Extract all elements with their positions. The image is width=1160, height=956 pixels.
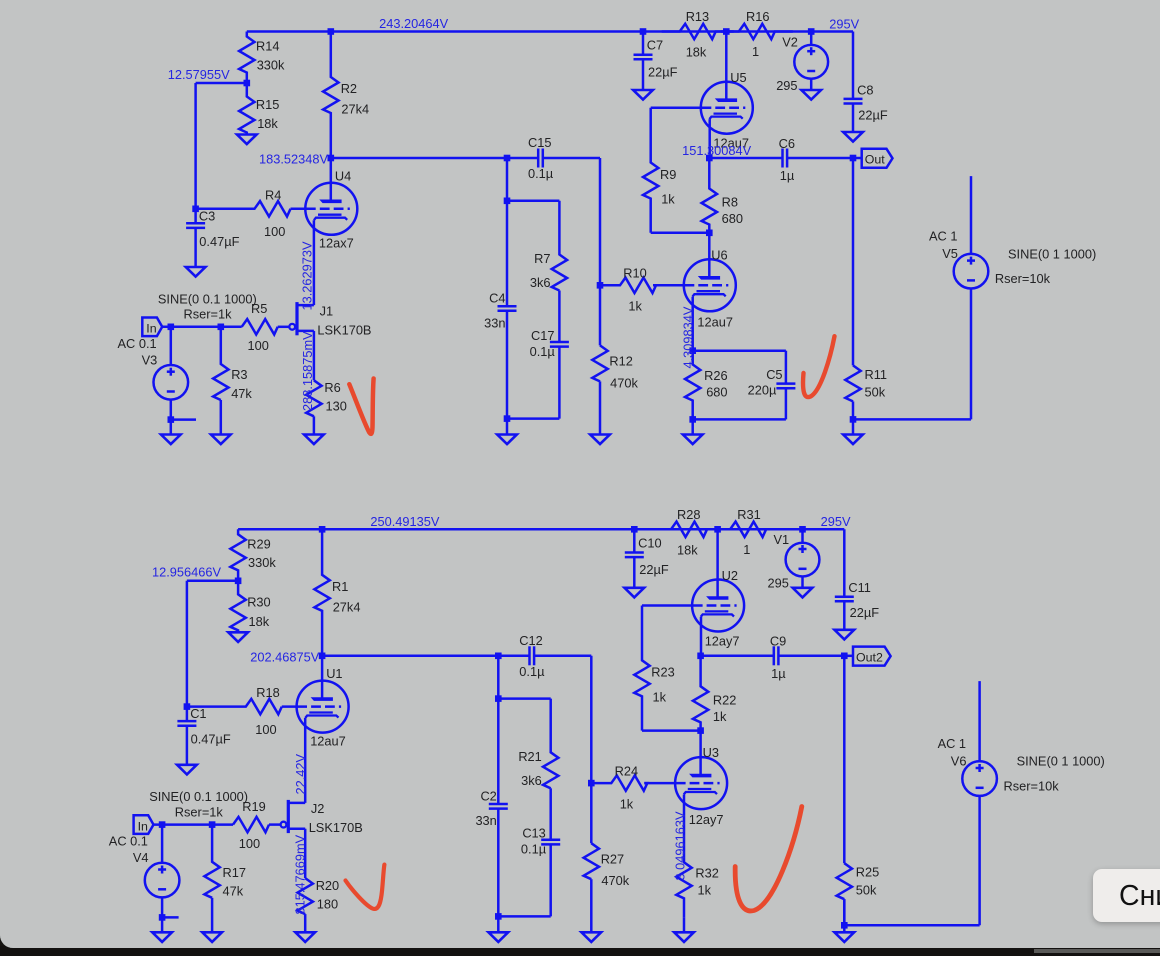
svg-text:R4: R4	[265, 187, 281, 202]
svg-text:680: 680	[722, 211, 743, 226]
svg-text:295: 295	[768, 576, 789, 591]
svg-text:AC 1: AC 1	[938, 736, 966, 751]
svg-text:V1: V1	[774, 532, 790, 547]
svg-text:18k: 18k	[257, 116, 278, 131]
svg-text:SINE(0 0.1 1000): SINE(0 0.1 1000)	[158, 291, 257, 306]
svg-text:V5: V5	[942, 246, 958, 261]
svg-text:12ax7: 12ax7	[319, 236, 354, 251]
svg-text:18k: 18k	[686, 45, 707, 60]
svg-text:AC 1: AC 1	[929, 229, 957, 244]
svg-text:1k: 1k	[661, 192, 675, 207]
svg-text:330k: 330k	[257, 57, 285, 72]
svg-text:R7: R7	[534, 251, 550, 266]
svg-text:100: 100	[255, 722, 276, 737]
svg-text:288.15875mV: 288.15875mV	[300, 331, 315, 411]
svg-text:R21: R21	[518, 749, 541, 764]
svg-text:1: 1	[752, 44, 759, 59]
svg-text:R23: R23	[651, 665, 674, 680]
svg-text:R19: R19	[242, 799, 265, 814]
svg-text:SINE(0 1 1000): SINE(0 1 1000)	[1017, 754, 1105, 769]
svg-text:J2: J2	[311, 801, 325, 816]
svg-text:R26: R26	[704, 368, 727, 383]
svg-text:22µF: 22µF	[858, 107, 888, 122]
svg-text:R18: R18	[256, 685, 279, 700]
svg-text:0.47µF: 0.47µF	[191, 732, 231, 747]
svg-text:R8: R8	[722, 195, 738, 210]
svg-text:4.309834V: 4.309834V	[681, 306, 696, 368]
svg-text:Rser=1k: Rser=1k	[175, 804, 224, 819]
svg-text:C13: C13	[522, 826, 545, 841]
svg-text:1k: 1k	[713, 709, 727, 724]
svg-text:SINE(0 1 1000): SINE(0 1 1000)	[1008, 246, 1096, 261]
svg-text:R12: R12	[609, 354, 632, 369]
svg-text:180: 180	[317, 896, 338, 911]
svg-text:22µF: 22µF	[648, 64, 678, 79]
svg-text:R11: R11	[865, 367, 888, 382]
svg-text:SINE(0 0.1 1000): SINE(0 0.1 1000)	[149, 789, 248, 804]
svg-text:27k4: 27k4	[341, 102, 369, 117]
svg-text:AC 0.1: AC 0.1	[118, 336, 157, 351]
svg-text:C3: C3	[199, 208, 215, 223]
svg-text:22µF: 22µF	[639, 562, 669, 577]
svg-text:R13: R13	[686, 9, 709, 24]
svg-text:0.1µ: 0.1µ	[528, 166, 554, 181]
svg-text:1: 1	[743, 542, 750, 557]
svg-text:1k: 1k	[628, 299, 642, 314]
svg-text:R3: R3	[231, 367, 247, 382]
svg-text:C8: C8	[857, 82, 873, 97]
svg-text:33n: 33n	[475, 813, 496, 828]
svg-text:R29: R29	[247, 536, 270, 551]
svg-text:R10: R10	[623, 266, 646, 281]
svg-text:C7: C7	[647, 38, 663, 53]
svg-text:151.30084V: 151.30084V	[682, 143, 751, 158]
svg-text:13.262973V: 13.262973V	[300, 241, 315, 310]
svg-text:Out: Out	[865, 153, 886, 167]
svg-text:3.0496163V: 3.0496163V	[672, 811, 687, 880]
svg-text:22µF: 22µF	[850, 605, 880, 620]
svg-text:R16: R16	[746, 9, 769, 24]
svg-text:183.52348V: 183.52348V	[259, 152, 328, 167]
svg-text:12.57955V: 12.57955V	[168, 67, 230, 82]
svg-text:C17: C17	[531, 328, 554, 343]
svg-text:R24: R24	[615, 763, 638, 778]
svg-text:12ay7: 12ay7	[705, 634, 740, 649]
svg-text:1k: 1k	[698, 882, 712, 897]
svg-text:R25: R25	[856, 865, 879, 880]
svg-text:U6: U6	[711, 247, 727, 262]
svg-text:Rser=1k: Rser=1k	[184, 307, 233, 322]
svg-text:R2: R2	[341, 81, 357, 96]
svg-text:V4: V4	[133, 850, 149, 865]
svg-text:C15: C15	[528, 135, 551, 150]
svg-text:R28: R28	[677, 507, 700, 522]
svg-text:C5: C5	[766, 367, 782, 382]
svg-text:Rser=10k: Rser=10k	[995, 271, 1051, 286]
svg-text:V2: V2	[782, 34, 798, 49]
svg-text:AC 0.1: AC 0.1	[109, 834, 148, 849]
svg-text:U5: U5	[730, 70, 746, 85]
svg-text:Out2: Out2	[856, 650, 883, 664]
svg-text:LSK170B: LSK170B	[317, 322, 371, 337]
svg-text:R30: R30	[247, 595, 270, 610]
svg-text:C6: C6	[779, 136, 795, 151]
svg-text:R5: R5	[251, 301, 267, 316]
svg-text:R27: R27	[601, 851, 624, 866]
svg-text:22.42V: 22.42V	[293, 753, 308, 794]
svg-text:680: 680	[706, 385, 727, 400]
svg-text:1k: 1k	[620, 796, 634, 811]
svg-text:C9: C9	[770, 634, 786, 649]
svg-text:J1: J1	[320, 303, 334, 318]
svg-text:100: 100	[239, 836, 260, 851]
svg-text:R31: R31	[737, 507, 760, 522]
svg-text:R32: R32	[695, 866, 718, 881]
svg-text:1µ: 1µ	[771, 666, 786, 681]
svg-text:47k: 47k	[223, 884, 244, 899]
svg-text:3k6: 3k6	[530, 275, 551, 290]
svg-text:R15: R15	[256, 97, 279, 112]
svg-text:130: 130	[326, 399, 347, 414]
svg-text:R1: R1	[332, 579, 348, 594]
svg-text:R14: R14	[256, 39, 279, 54]
svg-text:0.1µ: 0.1µ	[519, 664, 545, 679]
svg-text:1k: 1k	[653, 689, 667, 704]
svg-text:12au7: 12au7	[310, 733, 346, 748]
svg-text:295V: 295V	[829, 16, 859, 31]
svg-text:470k: 470k	[601, 873, 629, 888]
svg-text:47k: 47k	[231, 386, 252, 401]
svg-text:330k: 330k	[248, 555, 276, 570]
svg-text:470k: 470k	[610, 375, 638, 390]
svg-text:C1: C1	[190, 706, 206, 721]
svg-text:V6: V6	[951, 753, 967, 768]
svg-text:220µ: 220µ	[748, 382, 777, 397]
svg-text:0.1µ: 0.1µ	[521, 842, 547, 857]
svg-text:C12: C12	[519, 633, 542, 648]
svg-text:3k6: 3k6	[521, 773, 542, 788]
svg-text:18k: 18k	[677, 543, 698, 558]
svg-text:R22: R22	[713, 692, 736, 707]
svg-text:U3: U3	[703, 745, 719, 760]
svg-text:In: In	[138, 819, 148, 833]
svg-text:R17: R17	[223, 865, 246, 880]
svg-text:U2: U2	[722, 568, 738, 583]
svg-text:1µ: 1µ	[780, 168, 795, 183]
svg-text:295: 295	[776, 78, 797, 93]
svg-text:18k: 18k	[249, 614, 270, 629]
svg-text:In: In	[146, 322, 156, 336]
svg-text:0.47µF: 0.47µF	[199, 234, 239, 249]
svg-text:243.20464V: 243.20464V	[379, 16, 448, 31]
svg-text:50k: 50k	[856, 882, 877, 897]
svg-text:LSK170B: LSK170B	[309, 820, 363, 835]
svg-text:12au7: 12au7	[697, 314, 733, 329]
svg-text:295V: 295V	[821, 514, 851, 529]
svg-text:R9: R9	[660, 167, 676, 182]
svg-text:12.956466V: 12.956466V	[152, 565, 221, 580]
svg-text:815.47669mV: 815.47669mV	[292, 834, 307, 914]
svg-text:12ay7: 12ay7	[689, 812, 724, 827]
svg-text:100: 100	[264, 224, 285, 239]
svg-text:R20: R20	[316, 878, 339, 893]
svg-text:250.49135V: 250.49135V	[370, 514, 439, 529]
svg-text:C10: C10	[638, 535, 661, 550]
svg-text:U1: U1	[326, 666, 342, 681]
svg-text:33n: 33n	[484, 315, 505, 330]
svg-text:V3: V3	[142, 352, 158, 367]
svg-text:U4: U4	[335, 168, 351, 183]
svg-text:Rser=10k: Rser=10k	[1004, 778, 1060, 793]
svg-text:C11: C11	[848, 580, 871, 595]
svg-text:C2: C2	[480, 788, 496, 803]
svg-text:100: 100	[248, 338, 269, 353]
svg-text:50k: 50k	[865, 385, 886, 400]
svg-text:R6: R6	[324, 380, 340, 395]
svg-text:27k4: 27k4	[333, 600, 361, 615]
svg-text:202.46875V: 202.46875V	[250, 649, 319, 664]
svg-text:C4: C4	[489, 291, 505, 306]
svg-text:0.1µ: 0.1µ	[530, 344, 556, 359]
